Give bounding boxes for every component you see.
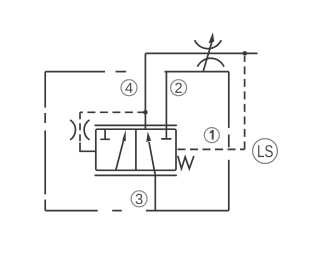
LS pilot dashed horizontal xyxy=(178,148,245,150)
orifice right arc xyxy=(84,120,89,140)
right box arrow head xyxy=(146,132,151,143)
left box blocked port T symbol xyxy=(100,129,110,139)
port 4 vertical line xyxy=(144,53,146,129)
needle valve N1 lower arc xyxy=(198,58,225,66)
left box flow path arrow shaft xyxy=(116,135,125,170)
needle valve N1 adjustment arrow shaft xyxy=(203,41,212,72)
pilot line solid elbow to valve left cap xyxy=(80,143,96,152)
LS pilot dashed vertical to node A xyxy=(244,56,246,149)
valve body two position boxes xyxy=(96,129,176,170)
envelope top edge (dashed boundary) xyxy=(45,71,229,73)
right box flow path arrow shaft xyxy=(149,142,155,175)
port 3 vertical line xyxy=(154,175,156,210)
needle valve N1 upper arc xyxy=(195,40,222,49)
envelope left edge xyxy=(44,72,46,211)
spring W on right cap xyxy=(178,156,194,169)
orifice left arc xyxy=(70,120,75,140)
junction dot node A (top right) xyxy=(243,51,248,56)
envelope bottom edge xyxy=(45,210,229,212)
port label circle 1 xyxy=(204,128,219,143)
pilot line dashed horizontal to orifice xyxy=(80,111,145,113)
junction dot node B (pilot tap) xyxy=(143,110,148,115)
needle valve supply line (port4 to node) xyxy=(145,52,257,54)
envelope right edge xyxy=(228,72,230,211)
port 2 vertical line xyxy=(165,72,167,130)
needle valve N1 arrow head xyxy=(209,32,215,43)
infinite positioning upper line xyxy=(95,124,176,126)
left box arrow head xyxy=(122,130,125,141)
port label circle 2 xyxy=(171,80,187,96)
port label circle 3 xyxy=(131,191,147,207)
right box blocked port T symbol xyxy=(161,129,171,139)
infinite positioning lower line xyxy=(95,174,176,176)
valve position divider xyxy=(135,129,137,170)
port label circle 4 xyxy=(121,80,137,96)
pilot line dashed vertical through orifice xyxy=(79,112,81,142)
port label circle LS xyxy=(253,139,278,164)
